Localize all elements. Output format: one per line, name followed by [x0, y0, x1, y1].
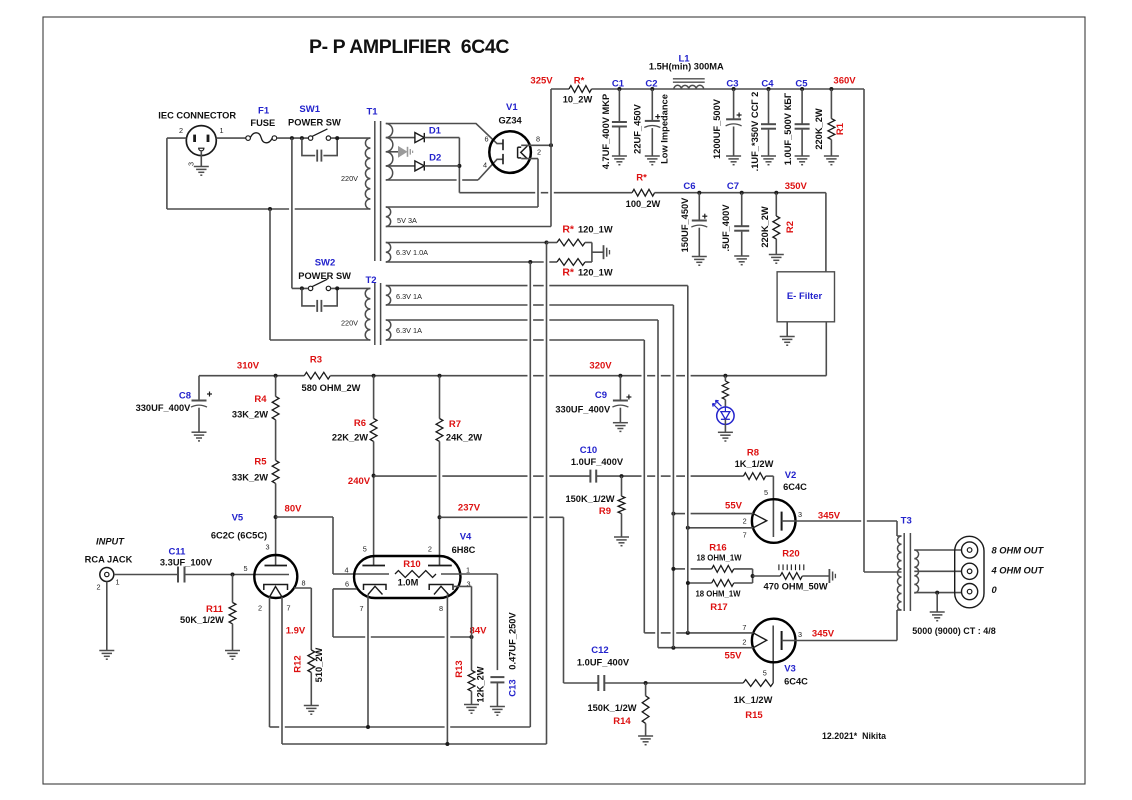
svg-text:R3: R3	[310, 355, 322, 366]
resistor R11 50K_1/2W	[180, 575, 240, 660]
svg-text:R20: R20	[782, 549, 799, 560]
svg-text:R16: R16	[709, 543, 726, 554]
IEC connector J1	[158, 111, 236, 176]
svg-text:R11: R11	[206, 604, 224, 615]
voltage label 350V	[785, 181, 808, 192]
svg-text:D2: D2	[429, 153, 441, 164]
svg-text:330UF_400V: 330UF_400V	[136, 403, 192, 413]
wire HV top to V1 pin6	[386, 124, 503, 144]
transformer T1 label	[366, 107, 378, 118]
svg-text:4: 4	[483, 161, 487, 170]
wire IEC pin2 to T1 primary bottom	[167, 138, 371, 211]
svg-text:R6: R6	[354, 418, 366, 429]
resistor R14 150K_1/2W	[587, 683, 653, 745]
svg-text:C10: C10	[580, 445, 597, 456]
transformer T1 5V 3A winding	[386, 207, 417, 227]
wire 80V to V4 grid pin4	[276, 517, 389, 574]
resistor R4 33K_2W	[232, 376, 279, 420]
svg-text:2: 2	[258, 604, 262, 613]
resistor R20 470 OHM_50W	[764, 549, 836, 592]
capacitor C9	[555, 376, 631, 432]
heater bus wire from 6.3V bottom	[529, 262, 531, 727]
T3 secondary 0 tap	[914, 591, 961, 595]
inductor L1	[649, 54, 724, 90]
RCA jack	[96, 568, 119, 592]
svg-text:C4: C4	[761, 78, 774, 89]
transformer T2 label	[365, 275, 376, 286]
svg-text:7: 7	[286, 604, 290, 613]
svg-text:6C4C: 6C4C	[784, 677, 808, 687]
E-Filter ground	[780, 322, 795, 345]
svg-text:V3: V3	[784, 664, 796, 675]
svg-text:360V: 360V	[833, 76, 856, 87]
HV center tap chassis ground	[386, 146, 413, 158]
svg-text:C1: C1	[612, 78, 625, 89]
svg-text:55V: 55V	[725, 651, 743, 662]
resistor R* 10_2W	[551, 76, 592, 105]
wire R15 to V3 grid	[772, 626, 774, 684]
triode V5 6C2C	[211, 513, 306, 613]
switch SW2	[298, 258, 351, 291]
T3 primary winding	[897, 536, 902, 610]
heater wire T2 w2 bottom	[386, 340, 645, 633]
svg-text:2: 2	[179, 126, 183, 135]
resistor R17 18 OHM_1W	[686, 580, 753, 613]
svg-text:R5: R5	[254, 457, 267, 468]
svg-text:3.3UF_100V: 3.3UF_100V	[160, 558, 213, 568]
wire IEC pin1 to fuse	[216, 137, 246, 139]
svg-text:6: 6	[345, 580, 349, 589]
svg-text:5V 3A: 5V 3A	[397, 216, 417, 225]
capacitor C12 1.0UF_400V	[577, 645, 630, 691]
transformer T2 primary winding 220V	[341, 288, 370, 340]
svg-text:6.3V 1.0A: 6.3V 1.0A	[396, 248, 428, 257]
svg-text:8: 8	[439, 604, 443, 613]
svg-text:33K_2W: 33K_2W	[232, 473, 268, 483]
wire 310V rail left	[199, 375, 304, 377]
svg-text:2: 2	[96, 583, 100, 592]
capacitor C11 3.3UF_100V	[160, 547, 213, 583]
wire 360V down to T3 center tap	[863, 89, 865, 572]
svg-text:2: 2	[743, 517, 747, 526]
svg-text:22UF_450V: 22UF_450V	[633, 103, 643, 153]
transformer T2 6.3V 1A winding a	[386, 286, 422, 305]
wire 240V to C10	[374, 475, 591, 477]
svg-text:R9: R9	[599, 506, 611, 517]
svg-text:C6: C6	[683, 181, 695, 192]
snubber capacitor across SW2	[302, 288, 337, 312]
T3 secondary 8 ohm tap	[914, 549, 961, 551]
fuse F1	[246, 106, 277, 143]
svg-text:1.0UF_500V КБГ: 1.0UF_500V КБГ	[783, 92, 793, 165]
svg-text:1.5H(min) 300MA: 1.5H(min) 300MA	[649, 61, 724, 71]
R*120 pair join and chassis ground	[592, 243, 610, 263]
wire 325V rail	[592, 87, 865, 91]
wire C12 to R15	[604, 681, 743, 685]
svg-text:C2: C2	[645, 78, 657, 89]
title	[309, 36, 509, 58]
E-Filter output wire	[825, 322, 827, 376]
LED indicator with series resistor	[713, 376, 735, 441]
wire V1 pin8 node	[521, 89, 553, 147]
svg-text:100_2W: 100_2W	[626, 199, 661, 209]
svg-text:320V: 320V	[589, 361, 612, 372]
svg-text:R13: R13	[454, 660, 465, 677]
input label	[85, 537, 133, 565]
svg-text:C11: C11	[169, 547, 187, 558]
wire 6.3V1.0A top	[386, 241, 557, 245]
svg-text:10_2W: 10_2W	[563, 95, 593, 105]
T3 secondary ground	[930, 593, 945, 621]
svg-text:1.0UF_400V: 1.0UF_400V	[571, 457, 624, 467]
heater wire T2 w1 bottom	[386, 305, 674, 648]
transformer T1 6.3V 1.0A winding	[386, 243, 428, 263]
switch SW1	[288, 104, 341, 140]
svg-text:R15: R15	[745, 710, 763, 721]
svg-text:1: 1	[466, 566, 470, 575]
wire D1 cathode to junction	[424, 138, 461, 193]
wire HV bottom to V1 pin4	[386, 159, 503, 180]
svg-text:5: 5	[764, 488, 768, 497]
wire 237V to C12	[440, 517, 564, 683]
svg-text:C5: C5	[795, 78, 808, 89]
svg-text:80V: 80V	[285, 504, 303, 515]
V2 filament pin2 wire	[671, 512, 753, 516]
svg-text:V2: V2	[785, 470, 797, 481]
svg-text:V4: V4	[460, 532, 472, 543]
svg-text:1: 1	[219, 126, 223, 135]
capacitor C6	[680, 181, 707, 265]
svg-text:2: 2	[428, 545, 432, 554]
svg-text:150UF_450V: 150UF_450V	[680, 197, 690, 253]
resistor R5 33K_2W	[232, 457, 279, 484]
svg-text:R*: R*	[562, 267, 575, 279]
svg-text:12K_2W: 12K_2W	[476, 666, 486, 702]
svg-text:R*: R*	[636, 173, 647, 184]
svg-text:220K_2W: 220K_2W	[760, 206, 770, 248]
svg-text:V5: V5	[232, 513, 244, 524]
svg-text:220V: 220V	[341, 319, 358, 328]
svg-text:7: 7	[743, 531, 747, 540]
svg-text:R7: R7	[449, 419, 461, 430]
svg-text:SW2: SW2	[315, 258, 336, 269]
wire R4-R5	[275, 420, 277, 461]
voltage label 55V (V2)	[725, 501, 743, 512]
resistor R9 150K_1/2W	[565, 476, 629, 546]
output tube V3 6C4C	[742, 619, 808, 687]
label 8 OHM OUT	[992, 545, 1045, 555]
svg-text:3: 3	[265, 543, 269, 552]
svg-text:5000 (9000) CT : 4/8: 5000 (9000) CT : 4/8	[912, 626, 996, 636]
svg-text:RCA JACK: RCA JACK	[85, 555, 133, 565]
voltage label 80V	[285, 504, 303, 515]
svg-text:T3: T3	[901, 516, 912, 527]
wire R6 to V4 plate pin5 (240V node)	[372, 441, 376, 565]
label 4 OHM OUT	[991, 566, 1045, 576]
svg-text:7: 7	[359, 604, 363, 613]
svg-text:FUSE: FUSE	[250, 118, 275, 128]
T3 secondary 4 ohm tap	[914, 570, 961, 572]
resistor R* 100_2W	[459, 173, 660, 210]
resistor R13 12K_2W	[454, 637, 486, 713]
resistor R2	[760, 193, 796, 264]
svg-text:310V: 310V	[237, 361, 260, 372]
svg-text:55V: 55V	[725, 501, 743, 512]
svg-text:POWER SW: POWER SW	[288, 118, 341, 128]
voltage label 310V	[237, 361, 260, 372]
svg-text:240V: 240V	[348, 476, 371, 487]
svg-text:24K_2W: 24K_2W	[446, 433, 482, 443]
V2 plate wire 345V	[782, 511, 897, 537]
svg-text:1: 1	[115, 578, 119, 587]
svg-text:220K_2W: 220K_2W	[814, 108, 824, 150]
label 0	[992, 585, 998, 595]
svg-text:R17: R17	[710, 602, 727, 613]
svg-text:C3: C3	[726, 78, 738, 89]
V4 right cathode pin3 wire	[452, 586, 472, 637]
svg-text:350V: 350V	[785, 181, 808, 192]
voltage label 237V	[458, 503, 481, 514]
diode D1	[386, 126, 442, 143]
wire fuse to SW1	[277, 136, 309, 140]
capacitor C2	[633, 78, 670, 164]
svg-text:D1: D1	[429, 126, 442, 137]
snubber capacitor across SW1	[302, 138, 337, 162]
svg-text:7: 7	[742, 623, 746, 632]
svg-text:4 OHM OUT: 4 OHM OUT	[991, 566, 1045, 576]
svg-text:1200UF_500V: 1200UF_500V	[712, 98, 722, 159]
voltage label 325V	[530, 76, 553, 87]
resistor R6 22K_2W	[332, 376, 377, 443]
svg-text:22K_2W: 22K_2W	[332, 433, 368, 443]
transformer T3 label	[901, 516, 912, 527]
svg-text:4: 4	[344, 566, 348, 575]
svg-text:150K_1/2W: 150K_1/2W	[587, 703, 636, 713]
svg-text:237V: 237V	[458, 503, 481, 514]
V4 heater pin7 wire	[367, 595, 369, 728]
resistor R16 18 OHM_1W	[671, 543, 752, 573]
svg-text:5: 5	[243, 564, 247, 573]
svg-text:325V: 325V	[530, 76, 553, 87]
svg-text:1.9V: 1.9V	[286, 626, 306, 637]
svg-text:R10: R10	[403, 559, 420, 570]
capacitor C10 1.0UF_400V	[571, 445, 624, 483]
resistor R* 120_1W top	[557, 224, 613, 246]
svg-text:220V: 220V	[341, 174, 358, 183]
heater return wire lower	[282, 742, 547, 746]
svg-text:5: 5	[363, 545, 367, 554]
transformer T1 primary winding 220V	[341, 138, 370, 209]
signature	[822, 731, 886, 741]
T3 center tap wire	[864, 571, 902, 573]
V4 left cathode pin6 wire	[333, 589, 357, 637]
svg-text:2: 2	[537, 148, 541, 157]
svg-text:6: 6	[484, 135, 488, 144]
RCA jack ground	[99, 582, 114, 660]
svg-text:1.0UF_400V: 1.0UF_400V	[577, 658, 630, 668]
svg-text:INPUT: INPUT	[96, 537, 125, 547]
transformer T2 core	[375, 283, 381, 345]
svg-text:6C2C (6C5C): 6C2C (6C5C)	[211, 531, 267, 541]
V5 cathode pin8 wire	[294, 588, 311, 650]
resistor R7 24K_2W	[436, 376, 482, 443]
svg-text:6C4C: 6C4C	[783, 482, 807, 492]
svg-text:345V: 345V	[812, 629, 835, 640]
capacitor C4	[750, 78, 776, 171]
svg-text:C12: C12	[591, 645, 608, 656]
svg-text:F1: F1	[258, 106, 270, 117]
svg-text:C9: C9	[595, 390, 607, 401]
svg-text:330UF_400V: 330UF_400V	[555, 405, 611, 415]
wire to SW2	[292, 286, 308, 290]
V3 plate wire 345V	[782, 610, 897, 641]
capacitor C8	[136, 376, 212, 441]
V4 heater pin8 wire	[446, 595, 448, 745]
wire R7 to V4 plate pin2 (237V node)	[438, 441, 442, 565]
svg-text:R2: R2	[785, 221, 796, 233]
wire RCA to C11	[114, 574, 178, 576]
svg-text:2: 2	[742, 638, 746, 647]
wire C12 left	[564, 682, 599, 684]
T3 secondary winding	[914, 550, 918, 593]
svg-text:1K_1/2W: 1K_1/2W	[735, 459, 774, 469]
svg-text:120_1W: 120_1W	[578, 268, 613, 278]
heater bus wire from 6.3V top	[546, 243, 548, 745]
heater return wire upper	[270, 725, 531, 729]
V3 filament pin2 wire	[658, 646, 753, 650]
rectifier tube V1 GZ34	[483, 102, 541, 173]
resistor R8 1K_1/2W	[735, 448, 774, 480]
svg-text:.1UF_*350V ССГ 2: .1UF_*350V ССГ 2	[750, 92, 760, 172]
wire SW2 to T2 primary	[331, 286, 371, 290]
wire 5V winding bottom to pin8 node	[386, 145, 551, 226]
V5 heater pin7 wire	[281, 597, 283, 744]
svg-text:1K_1/2W: 1K_1/2W	[734, 695, 773, 705]
svg-text:R14: R14	[613, 716, 631, 727]
svg-text:470 OHM_50W: 470 OHM_50W	[764, 582, 828, 592]
transformer T2 6.3V 1A winding b	[386, 320, 422, 340]
wire 350V to E-Filter	[825, 193, 827, 272]
wire T2 primary bottom return	[270, 209, 370, 340]
svg-text:R1: R1	[835, 122, 846, 135]
svg-text:3: 3	[798, 510, 802, 519]
capacitor C1	[601, 78, 627, 169]
svg-text:3: 3	[798, 630, 802, 639]
svg-text:3: 3	[187, 162, 196, 166]
svg-text:V1: V1	[506, 102, 518, 113]
wire C11 to V5 grid	[185, 573, 290, 577]
wire 6.3V1.0A bottom	[386, 260, 557, 264]
svg-text:8: 8	[301, 579, 305, 588]
resistor R* 120_1W bottom	[557, 259, 613, 279]
capacitor C5	[783, 78, 809, 165]
svg-text:6H8C: 6H8C	[452, 545, 476, 555]
svg-text:0.47UF_250V: 0.47UF_250V	[508, 612, 518, 670]
svg-text:R*: R*	[574, 76, 585, 87]
T3 core	[904, 533, 910, 611]
svg-text:18 OHM_1W: 18 OHM_1W	[696, 554, 742, 563]
resistor R3 580 OHM_2W	[302, 355, 361, 394]
wire C10 to R8	[596, 474, 743, 478]
svg-text:E- Filter: E- Filter	[787, 291, 823, 302]
svg-text:12.2021* Nikita: 12.2021* Nikita	[822, 731, 886, 741]
svg-text:4.7UF_400V MKP: 4.7UF_400V MKP	[601, 94, 611, 169]
heater wire T2 w1 top	[386, 286, 688, 633]
svg-text:Low Impedance: Low Impedance	[660, 94, 670, 164]
svg-text:18 OHM_1W: 18 OHM_1W	[695, 590, 741, 599]
svg-text:C8: C8	[179, 391, 191, 402]
svg-text:T1: T1	[366, 107, 378, 118]
svg-text:P- P AMPLIFIER 6C4C: P- P AMPLIFIER 6C4C	[309, 36, 509, 58]
svg-text:580 OHM_2W: 580 OHM_2W	[302, 383, 361, 393]
wire SW1 junction down to SW2	[291, 138, 293, 288]
svg-text:R8: R8	[747, 448, 759, 459]
svg-text:IEC CONNECTOR: IEC CONNECTOR	[158, 111, 236, 121]
wire 350V rail	[655, 191, 826, 195]
capacitor C13 0.47UF_250V	[490, 612, 519, 716]
svg-text:510_2W: 510_2W	[314, 647, 324, 682]
svg-text:POWER SW: POWER SW	[298, 271, 351, 281]
svg-text:6.3V 1A: 6.3V 1A	[396, 292, 422, 301]
svg-text:345V: 345V	[818, 511, 841, 522]
svg-text:.5UF_400V: .5UF_400V	[721, 204, 731, 252]
R16/R17 join	[751, 569, 781, 583]
svg-text:33K_2W: 33K_2W	[232, 410, 268, 420]
wire R5 to V5 plate (80V node)	[274, 483, 278, 565]
voltage label 240V	[348, 476, 371, 487]
svg-text:GZ34: GZ34	[498, 116, 522, 126]
svg-text:R*: R*	[562, 224, 575, 236]
voltage label 320V	[589, 361, 612, 372]
transformer T1 HV secondary winding	[386, 124, 393, 181]
output connector jacks	[955, 536, 984, 608]
V5 heater pin2 wire	[269, 597, 271, 727]
svg-text:1.0M: 1.0M	[398, 578, 419, 588]
svg-text:50K_1/2W: 50K_1/2W	[180, 615, 224, 625]
resistor R10 1.0M grid-grid	[395, 559, 436, 588]
V2 filament pin7 wire	[686, 526, 753, 530]
resistor R15 1K_1/2W	[734, 680, 774, 721]
svg-text:R12: R12	[293, 655, 304, 672]
diode D2	[386, 153, 441, 171]
svg-text:R4: R4	[254, 394, 267, 405]
output tube V2 6C4C	[743, 470, 808, 543]
wire D2 cathode to junction	[424, 165, 459, 167]
svg-text:120_1W: 120_1W	[578, 225, 613, 235]
capacitor C7	[721, 181, 749, 265]
wire V1 pin2 to 5V winding	[386, 159, 538, 207]
resistor R12 510_2W	[286, 626, 324, 715]
resistor R1	[814, 89, 846, 165]
wire 320V rail	[274, 374, 827, 378]
wire SW1 to T1 primary	[331, 136, 371, 140]
svg-text:6.3V 1A: 6.3V 1A	[396, 326, 422, 335]
voltage label 360V	[833, 76, 856, 87]
svg-text:0: 0	[992, 585, 998, 595]
label T3 impedance	[912, 626, 996, 636]
twin triode V4 6H8C	[344, 532, 475, 614]
voltage label 55V (V3)	[725, 651, 743, 662]
capacitor C3	[712, 78, 742, 164]
E-Filter block	[777, 272, 834, 322]
svg-text:5: 5	[763, 669, 767, 678]
wire 84V node	[333, 626, 487, 640]
svg-text:C7: C7	[727, 181, 739, 192]
svg-text:SW1: SW1	[299, 104, 320, 115]
svg-text:C13: C13	[508, 679, 519, 696]
V4 right grid pin1 wire	[441, 574, 497, 670]
V3 filament pin7 wire	[644, 631, 753, 635]
